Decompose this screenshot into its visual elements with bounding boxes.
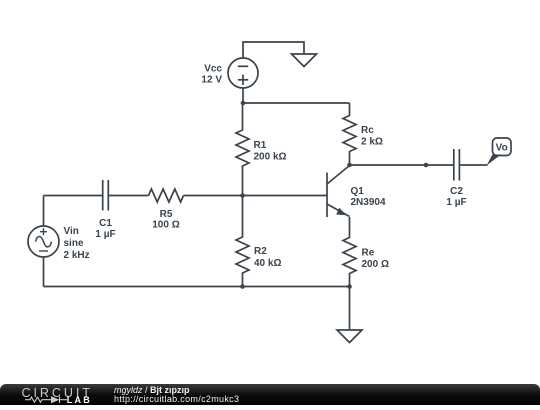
voltage source Vin bbox=[28, 226, 59, 257]
svg-text:Vcc: Vcc bbox=[204, 63, 222, 74]
wire bottom rail bbox=[44, 286, 350, 288]
svg-text:12 V: 12 V bbox=[201, 75, 222, 86]
node flag Vo bbox=[487, 138, 512, 166]
wire R5 to base node bbox=[184, 195, 243, 197]
svg-text:Vo: Vo bbox=[496, 142, 508, 153]
wire base node to Q1 base bbox=[243, 195, 328, 197]
svg-text:200 kΩ: 200 kΩ bbox=[254, 152, 287, 163]
label C2 1 µF bbox=[446, 186, 466, 208]
wire Vcc top to ground bbox=[243, 42, 304, 59]
voltage source Vcc bbox=[228, 58, 258, 88]
capacitor C1 bbox=[103, 180, 109, 211]
svg-text:40 kΩ: 40 kΩ bbox=[254, 258, 281, 269]
wire Vcc bottom to top rail node bbox=[242, 88, 244, 103]
svg-text:R1: R1 bbox=[254, 140, 267, 151]
wire top rail bbox=[243, 102, 350, 104]
resistor R5 bbox=[149, 189, 184, 202]
junction node Re/bottom rail bbox=[347, 284, 352, 289]
svg-text:R2: R2 bbox=[254, 246, 267, 257]
wire input rail (Vin to C1) bbox=[44, 195, 103, 197]
label Vcc 12 V bbox=[201, 63, 222, 85]
junction node collector bbox=[347, 163, 352, 168]
svg-text:1 µF: 1 µF bbox=[95, 229, 115, 240]
label C1 1 µF bbox=[95, 218, 115, 240]
wire Vin bottom lead bbox=[43, 257, 45, 287]
svg-text:Q1: Q1 bbox=[351, 186, 365, 197]
label R2 40 kΩ bbox=[254, 246, 281, 269]
label Re 200 Ω bbox=[362, 248, 389, 271]
ground (top right of Vcc) bbox=[292, 54, 317, 67]
ground (bottom) bbox=[337, 330, 362, 343]
junction node R1/R2/base bbox=[240, 193, 245, 198]
capacitor C2 bbox=[454, 149, 460, 181]
label R5 100 Ω bbox=[152, 209, 179, 230]
footer bar bbox=[0, 384, 540, 405]
svg-text:Re: Re bbox=[362, 248, 375, 259]
svg-text:C2: C2 bbox=[450, 186, 463, 197]
resistor Rc bbox=[343, 103, 356, 165]
svg-text:2 kHz: 2 kHz bbox=[64, 250, 90, 261]
transistor Q1 2N3904 bbox=[327, 166, 350, 218]
wire C1 to R5 bbox=[109, 195, 149, 197]
svg-text:Rc: Rc bbox=[361, 125, 374, 136]
svg-text:200 Ω: 200 Ω bbox=[362, 259, 389, 270]
junction node on output wire bbox=[424, 163, 429, 168]
svg-text:2N3904: 2N3904 bbox=[351, 197, 386, 208]
svg-text:2 kΩ: 2 kΩ bbox=[361, 137, 383, 148]
label R1 200 kΩ bbox=[254, 140, 287, 163]
wire C2 to output flag bbox=[460, 164, 488, 166]
svg-text:C1: C1 bbox=[99, 218, 112, 229]
CircuitLab logo bbox=[0, 384, 110, 405]
resistor R1 bbox=[236, 103, 249, 196]
footer meta text bbox=[114, 386, 239, 405]
wire Vin top lead bbox=[43, 196, 45, 227]
svg-text:Vin: Vin bbox=[64, 226, 79, 237]
svg-text:100 Ω: 100 Ω bbox=[152, 219, 179, 230]
wire collector to C2 bbox=[350, 164, 454, 166]
junction node at Vcc/R1/Rc rail bbox=[241, 101, 246, 106]
svg-text:LAB: LAB bbox=[67, 395, 92, 405]
resistor Re bbox=[343, 217, 356, 287]
svg-text:1 µF: 1 µF bbox=[446, 197, 466, 208]
label Rc 2 kΩ bbox=[361, 125, 383, 148]
resistor R2 bbox=[236, 196, 249, 287]
wire to bottom ground bbox=[349, 287, 351, 331]
junction node R2/bottom rail bbox=[240, 284, 245, 289]
svg-text:sine: sine bbox=[64, 238, 84, 249]
label Q1 2N3904 bbox=[351, 186, 386, 208]
label Vin sine 2 kHz bbox=[64, 226, 90, 261]
